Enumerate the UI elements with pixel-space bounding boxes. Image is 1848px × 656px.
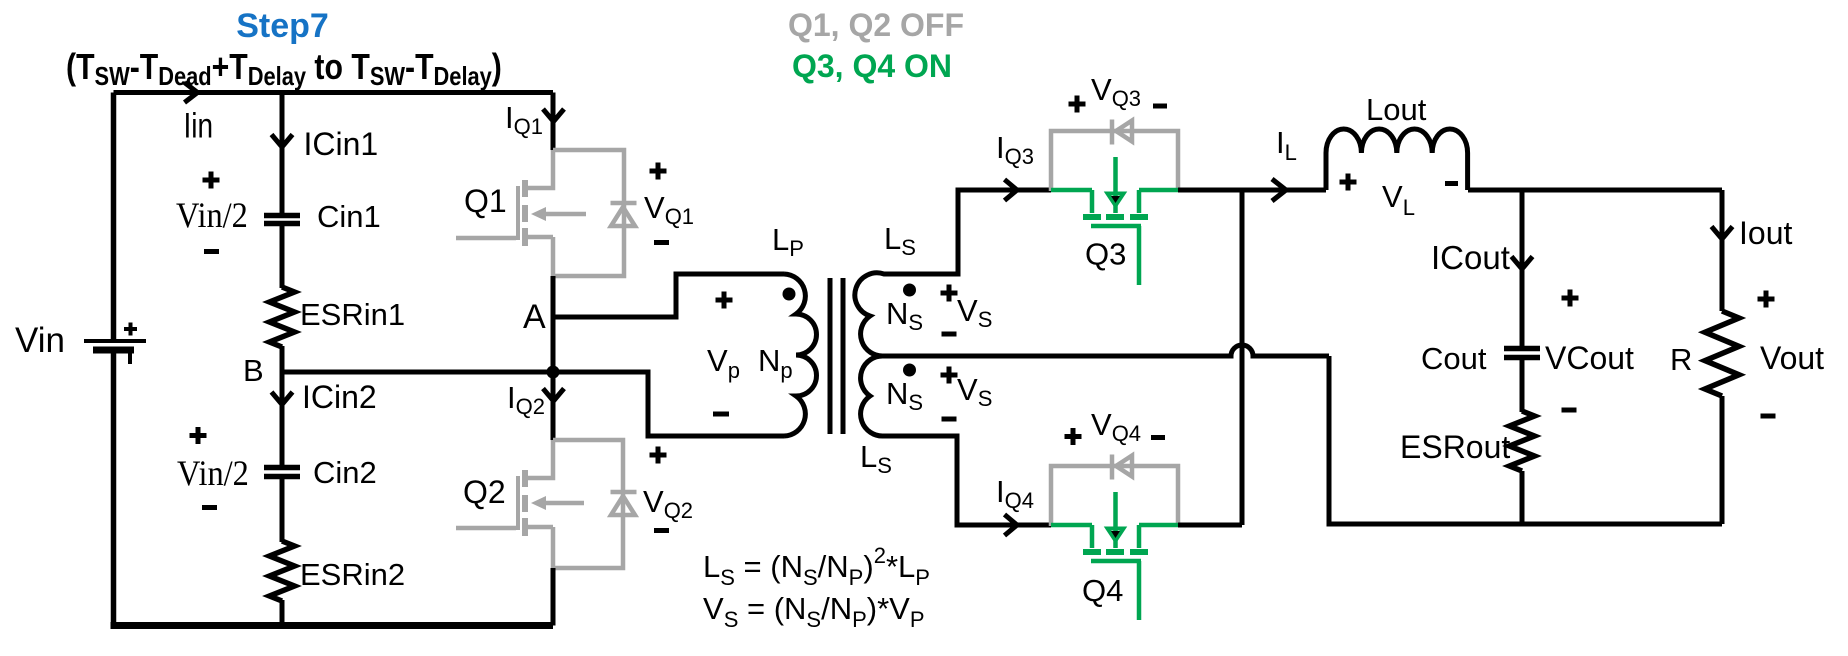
wire Q4 to node [1178, 523, 1242, 528]
resistor R [1705, 311, 1739, 396]
wire center tap with hop crossover [884, 345, 1329, 356]
wire ESRout to rail [1520, 471, 1525, 524]
transformer secondary top winding [855, 190, 1051, 356]
wire output return rail [1329, 356, 1722, 524]
capacitor Cout [1504, 349, 1540, 358]
resistor ESRout [1510, 411, 1535, 471]
svg-text:B: B [243, 353, 264, 388]
svg-text:Vin: Vin [15, 321, 65, 360]
svg-text:Iout: Iout [1739, 215, 1792, 251]
svg-text:ESRout: ESRout [1400, 429, 1510, 465]
svg-text:Q1: Q1 [464, 183, 507, 219]
wire Q2 source to bottom [551, 568, 556, 626]
resistor ESRin1 [270, 287, 295, 347]
wire ESRin1 to B [280, 346, 285, 468]
svg-text:Cin2: Cin2 [313, 455, 377, 490]
minus Vout [1761, 414, 1776, 419]
battery Vin [84, 323, 146, 365]
capacitor Cin2 [264, 468, 300, 477]
transistor Q1 mosfet [456, 150, 586, 276]
wire bottom rail [111, 622, 554, 629]
minus VCout [1562, 408, 1577, 413]
svg-text:ICout: ICout [1431, 239, 1510, 276]
svg-text:ESRin1: ESRin1 [300, 297, 405, 332]
plus Cin2 [190, 427, 207, 444]
dot secondary top [903, 284, 916, 297]
minus Cin2 [202, 505, 217, 510]
svg-text:Vout: Vout [1760, 340, 1824, 376]
junction dot A-B [547, 366, 560, 379]
svg-text:Q1, Q2 OFF: Q1, Q2 OFF [788, 7, 964, 43]
svg-text:R: R [1670, 342, 1692, 377]
wire mid column upper [280, 93, 285, 214]
arrow Iin [185, 83, 198, 103]
svg-text:Step7: Step7 [236, 7, 329, 45]
diode D4 body [1112, 455, 1132, 480]
plus VQ2 [650, 447, 667, 464]
arrow Iout [1712, 227, 1733, 240]
wire Cout to ESRout [1520, 360, 1525, 412]
wire A column [551, 276, 556, 440]
minus VS bottom [942, 417, 957, 422]
plus VL [1340, 174, 1357, 191]
transformer core [830, 278, 843, 434]
svg-text:VCout: VCout [1545, 340, 1634, 376]
wire Q1 drain stub [551, 93, 556, 151]
capacitor Cin1 [264, 216, 300, 224]
svg-text:Vin/2: Vin/2 [176, 195, 248, 235]
transformer secondary bottom winding [861, 356, 1051, 525]
transistor Q4 gray box [1051, 466, 1178, 526]
resistor ESRin2 [270, 541, 295, 601]
plus Vout [1758, 291, 1775, 308]
arrow IQ3 [1005, 180, 1018, 201]
arrow ICin1 [272, 135, 293, 148]
wire Lout to R [1468, 188, 1722, 193]
arrow ICout [1512, 257, 1533, 270]
svg-text:Q4: Q4 [1082, 573, 1123, 608]
plus Cin1 [203, 172, 220, 189]
wire R to rail [1720, 396, 1725, 524]
svg-text:Lout: Lout [1366, 92, 1427, 127]
svg-text:Q3: Q3 [1085, 237, 1126, 272]
svg-text:ICin1: ICin1 [304, 126, 379, 162]
transistor Q3 gray box [1051, 131, 1178, 191]
diode D1 body [611, 203, 637, 226]
wire B horizontal [282, 370, 553, 375]
arrow IQ1 [543, 109, 564, 122]
svg-text:ICin2: ICin2 [302, 379, 377, 415]
wire Q3-Q4 vertical [1240, 190, 1245, 525]
svg-text:A: A [523, 298, 546, 336]
plus VQ3 [1069, 96, 1086, 113]
label Vin/2 lower [177, 453, 249, 493]
wire left vertical upper [111, 93, 117, 340]
minus primary [713, 412, 729, 417]
diode D3 body [1112, 120, 1132, 145]
minus VS top [942, 332, 957, 337]
plus VS bottom [941, 367, 958, 384]
wire ESRin2 to bottom [280, 600, 285, 626]
svg-text:ESRin2: ESRin2 [300, 557, 405, 592]
wire top rail [114, 90, 554, 95]
wire R branch top [1720, 190, 1725, 311]
minus VQ2 [654, 528, 669, 533]
wire Cout branch top [1520, 190, 1525, 346]
label Vin/2 upper [176, 195, 248, 235]
dot primary [783, 288, 796, 301]
transistor Q2 body wiring [553, 440, 623, 568]
minus VQ4 [1151, 435, 1165, 440]
plus VQ4 [1065, 428, 1082, 445]
plus VQ1 [650, 163, 667, 180]
svg-text:Cout: Cout [1421, 341, 1487, 376]
svg-text:Q3, Q4 ON: Q3, Q4 ON [792, 48, 952, 84]
svg-text:Q2: Q2 [463, 474, 506, 510]
transistor Q1 body wiring [553, 150, 624, 276]
plus primary [716, 292, 733, 309]
minus VQ1 [654, 240, 669, 245]
svg-text:Cin1: Cin1 [317, 199, 381, 234]
svg-text:Vin/2: Vin/2 [177, 453, 249, 493]
inductor Lout [1326, 129, 1468, 190]
transistor Q4 mosfet green [1051, 492, 1178, 620]
transformer primary winding Np [784, 274, 816, 436]
minus VQ3 [1153, 104, 1167, 109]
minus VL [1445, 181, 1458, 186]
arrow IQ2 [543, 389, 564, 402]
wire Cin2 to ESRin2 [280, 478, 285, 542]
svg-text:Iin: Iin [184, 105, 214, 145]
wire Cin1 to ESRin1 [280, 225, 285, 288]
arrow IQ4 [1005, 515, 1018, 536]
plus VCout [1562, 290, 1579, 307]
wire Q3 to node [1178, 188, 1326, 193]
dot secondary bottom [903, 364, 916, 377]
diode D2 body [611, 492, 637, 515]
plus VS top [941, 285, 958, 302]
arrow ICin2 [272, 392, 293, 405]
subtitle timing [66, 48, 502, 92]
minus Cin1 [204, 249, 219, 254]
wire left vertical lower [111, 352, 117, 626]
transistor Q2 mosfet [456, 440, 584, 568]
wire A to primary [553, 274, 784, 317]
arrow IL [1272, 179, 1286, 201]
wire B to primary bottom [553, 372, 784, 436]
transistor Q3 mosfet green [1051, 157, 1178, 285]
